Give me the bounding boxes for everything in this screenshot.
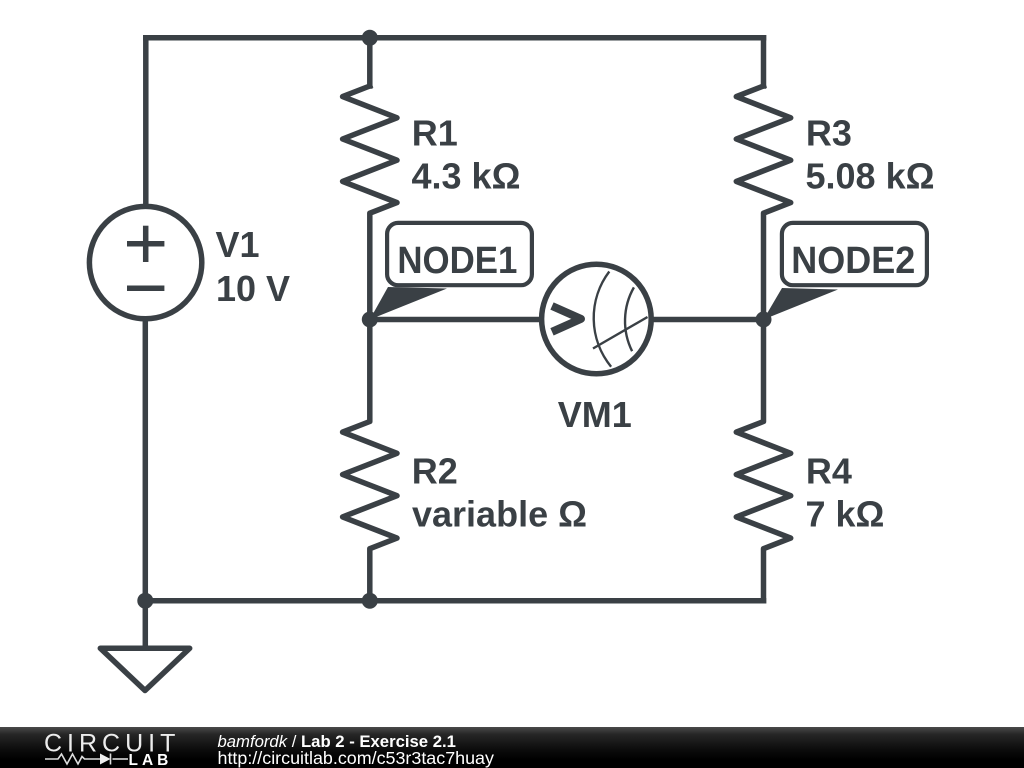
wire voltmeter to NODE2 xyxy=(652,317,764,323)
resistor R2 xyxy=(343,320,397,601)
node NODE1 flag xyxy=(370,223,532,320)
svg-text:R1: R1 xyxy=(412,112,458,153)
label R2 value xyxy=(412,451,587,535)
wire R3 top lead xyxy=(761,38,767,86)
junction dot bottom rail / ground xyxy=(137,593,153,609)
svg-text:R4: R4 xyxy=(806,451,852,492)
node NODE2 flag xyxy=(764,223,927,320)
junction dot NODE2 xyxy=(756,312,772,328)
wire left column top (V1 to top rail) xyxy=(143,38,149,206)
svg-text:R3: R3 xyxy=(806,112,852,153)
svg-text:10 V: 10 V xyxy=(216,268,290,309)
junction dot top rail / R1 xyxy=(362,30,378,46)
ground xyxy=(100,648,189,690)
wire R1 top lead xyxy=(367,38,373,86)
wire bottom rail xyxy=(145,598,763,604)
label R4 value xyxy=(806,451,885,535)
voltmeter VM1 xyxy=(542,264,652,374)
svg-text:NODE1: NODE1 xyxy=(397,240,517,282)
svg-text:variable Ω: variable Ω xyxy=(412,493,587,534)
voltage source V1 xyxy=(89,206,201,318)
wire ground lead xyxy=(143,601,149,646)
svg-text:4.3 kΩ: 4.3 kΩ xyxy=(412,155,521,196)
svg-text:http://circuitlab.com/c53r3tac: http://circuitlab.com/c53r3tac7huay xyxy=(218,748,495,768)
label V1 value xyxy=(216,224,291,309)
resistor R4 xyxy=(736,320,790,601)
wire top rail xyxy=(146,35,764,41)
wire left column bottom (V1 to bottom rail) xyxy=(143,319,149,600)
wire NODE1 to voltmeter xyxy=(370,317,541,323)
junction dot NODE1 xyxy=(362,312,378,328)
resistor R3 xyxy=(736,86,790,320)
CircuitLab logo resistor-diode line xyxy=(45,754,128,765)
svg-text:VM1: VM1 xyxy=(558,394,632,435)
svg-text:R2: R2 xyxy=(412,451,458,492)
label R3 value xyxy=(806,112,935,196)
svg-text:5.08 kΩ: 5.08 kΩ xyxy=(806,155,935,196)
label R1 value xyxy=(412,112,521,196)
svg-text:V1: V1 xyxy=(216,224,260,265)
resistor R1 xyxy=(343,86,397,320)
svg-text:NODE2: NODE2 xyxy=(791,240,915,282)
junction dot bottom rail / R2 xyxy=(362,593,378,609)
footer bar xyxy=(0,727,1024,768)
svg-text:7 kΩ: 7 kΩ xyxy=(806,493,885,534)
svg-text:LAB: LAB xyxy=(129,752,173,768)
